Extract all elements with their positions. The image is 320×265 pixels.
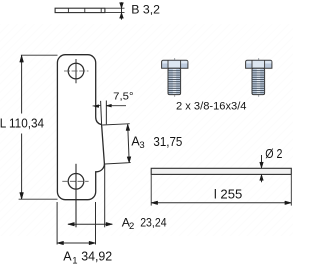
svg-text:l 255: l 255 [214, 186, 242, 201]
svg-text:2: 2 [129, 221, 134, 232]
svg-text:34,92: 34,92 [81, 250, 112, 264]
svg-text:2 x 3/8-16x3/4: 2 x 3/8-16x3/4 [176, 101, 247, 113]
svg-text:31,75: 31,75 [153, 134, 182, 149]
svg-text:A: A [63, 250, 72, 264]
svg-text:B 3,2: B 3,2 [131, 3, 160, 17]
svg-text:7,5°: 7,5° [113, 92, 133, 103]
svg-text:L 110,34: L 110,34 [0, 116, 44, 131]
svg-text:3: 3 [139, 140, 144, 151]
svg-text:Ø 2: Ø 2 [265, 147, 282, 161]
svg-text:1: 1 [72, 256, 77, 265]
svg-text:23,24: 23,24 [140, 216, 167, 230]
